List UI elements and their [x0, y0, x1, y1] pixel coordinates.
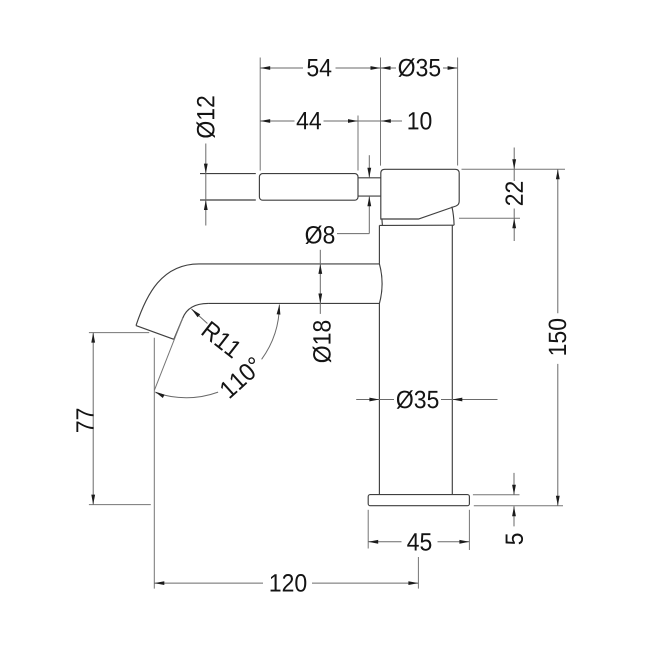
dimension Ø35 head	[381, 58, 458, 77]
head cap	[381, 169, 459, 219]
dimension 54	[260, 59, 380, 76]
extension line counter-level	[89, 504, 151, 506]
spout inner edge	[174, 318, 183, 339]
extension line base-top-right	[473, 494, 520, 496]
handle grip	[259, 174, 358, 201]
dimension 45	[368, 533, 469, 550]
extension line base-right	[468, 510, 470, 550]
extension line base-left	[367, 510, 369, 549]
extension line grip-left	[259, 58, 261, 171]
spout bottom line	[208, 302, 379, 304]
dimension 120	[154, 574, 418, 592]
dimension Ø12	[196, 96, 215, 225]
base plate	[368, 495, 469, 506]
spout tip face	[136, 326, 174, 340]
extension line head-right	[457, 58, 459, 166]
spout outer curve	[136, 264, 199, 326]
collar right edge	[452, 207, 454, 226]
dimension 10	[358, 112, 431, 130]
radius leader R11	[192, 309, 208, 324]
dimension 22	[505, 148, 522, 242]
handle lever rod	[200, 174, 256, 200]
extension line grip-right	[357, 116, 359, 171]
body top edge	[379, 224, 454, 226]
handle stem	[358, 178, 381, 196]
collar left edge	[381, 219, 384, 225]
label 110°	[219, 356, 264, 399]
dimension Ø35 body	[356, 390, 497, 409]
extension line head-top-right	[462, 168, 566, 170]
dimension 77	[76, 333, 95, 505]
spout inner curve	[183, 303, 208, 318]
dimension 44	[260, 112, 358, 129]
extension line body-center	[417, 557, 419, 589]
dimension 150	[549, 169, 567, 506]
extension line base-bottom-right	[474, 505, 563, 507]
dimension Ø8	[305, 155, 371, 244]
extension line head-left	[380, 58, 382, 166]
body right edge	[451, 225, 453, 494]
body left edge	[379, 225, 382, 494]
dimension Ø18	[313, 250, 332, 363]
extension line spout-tip	[153, 338, 155, 589]
spout top line	[199, 263, 379, 265]
extension line collar-bottom	[459, 217, 520, 219]
dimension 5	[506, 473, 523, 544]
extension line outlet-level	[89, 332, 149, 334]
angle leg 110°	[154, 318, 182, 390]
angle dimension 110° arc	[155, 305, 281, 399]
label R11	[201, 321, 242, 359]
